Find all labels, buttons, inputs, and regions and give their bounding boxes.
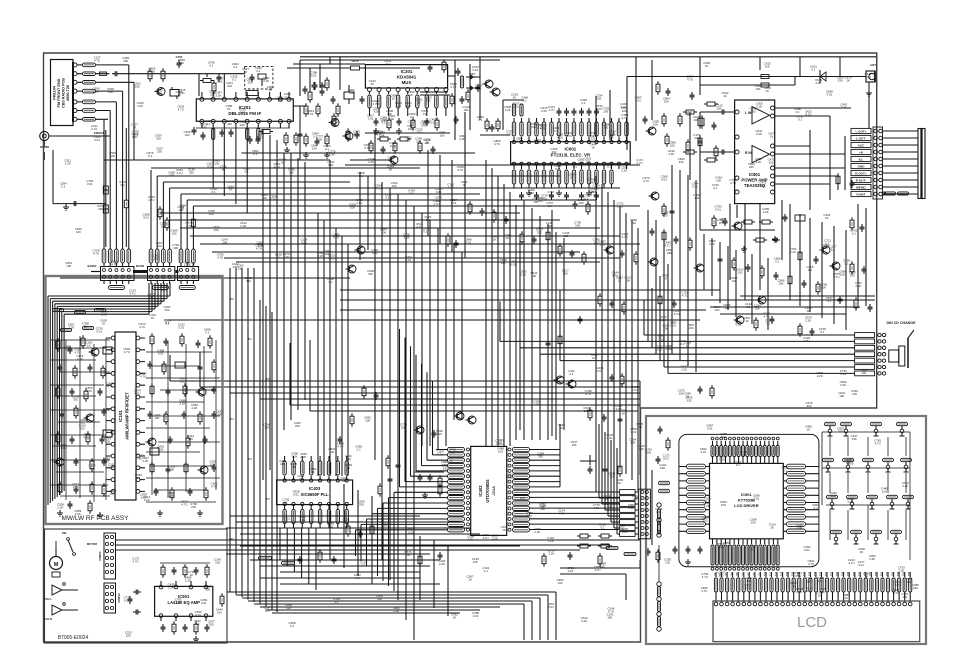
svg-text:S26: S26 xyxy=(853,571,856,576)
svg-text:330: 330 xyxy=(538,455,543,459)
svg-text:1K: 1K xyxy=(548,204,552,208)
svg-text:4.7U: 4.7U xyxy=(637,161,643,165)
svg-text:100: 100 xyxy=(732,279,737,283)
svg-text:100: 100 xyxy=(80,426,85,430)
svg-text:4.7U: 4.7U xyxy=(207,165,213,169)
svg-text:4.7U: 4.7U xyxy=(333,236,339,240)
svg-text:P5: P5 xyxy=(266,497,270,501)
svg-text:4.7U: 4.7U xyxy=(662,214,668,218)
svg-text:0.1: 0.1 xyxy=(61,185,65,189)
svg-text:100: 100 xyxy=(852,392,857,396)
svg-text:10K: 10K xyxy=(108,90,113,94)
svg-text:100: 100 xyxy=(191,505,196,509)
svg-text:S13: S13 xyxy=(781,571,784,576)
svg-text:1K: 1K xyxy=(102,321,106,325)
svg-text:0.01: 0.01 xyxy=(437,453,443,457)
svg-text:0.01: 0.01 xyxy=(156,91,162,95)
svg-text:1K: 1K xyxy=(347,466,351,470)
svg-text:330: 330 xyxy=(646,451,651,455)
svg-text:2.2K: 2.2K xyxy=(492,537,498,541)
svg-text:330: 330 xyxy=(286,606,291,610)
svg-text:10K: 10K xyxy=(589,181,594,185)
svg-text:2.2K: 2.2K xyxy=(816,81,822,85)
svg-text:2.2K: 2.2K xyxy=(329,153,335,157)
svg-text:2.2K: 2.2K xyxy=(390,144,396,148)
svg-text:330: 330 xyxy=(807,404,812,408)
svg-text:1K: 1K xyxy=(426,218,430,222)
svg-text:100: 100 xyxy=(317,138,322,142)
svg-text:4.7U: 4.7U xyxy=(86,389,92,393)
svg-text:S24: S24 xyxy=(842,571,845,576)
svg-text:2.2K: 2.2K xyxy=(628,506,634,510)
svg-text:2.2K: 2.2K xyxy=(617,205,623,209)
svg-text:4.7U: 4.7U xyxy=(283,255,289,259)
svg-text:330: 330 xyxy=(123,59,128,63)
svg-text:4.7U: 4.7U xyxy=(724,544,730,548)
svg-text:R210: R210 xyxy=(352,59,359,63)
svg-text:0.01: 0.01 xyxy=(858,563,864,567)
svg-text:0.1: 0.1 xyxy=(195,622,199,626)
svg-text:0.1: 0.1 xyxy=(633,497,637,501)
svg-text:0.1: 0.1 xyxy=(290,624,294,628)
svg-text:330: 330 xyxy=(180,380,185,384)
svg-text:100: 100 xyxy=(346,457,351,461)
svg-text:1K: 1K xyxy=(791,584,795,588)
svg-text:S25: S25 xyxy=(847,571,850,576)
svg-text:100: 100 xyxy=(149,296,154,300)
svg-text:1K: 1K xyxy=(502,528,506,532)
svg-text:330: 330 xyxy=(295,424,300,428)
svg-text:S18: S18 xyxy=(808,571,811,576)
svg-text:100: 100 xyxy=(703,519,708,523)
svg-text:4.7U: 4.7U xyxy=(687,78,693,82)
svg-text:L OUT-: L OUT- xyxy=(856,136,866,140)
svg-text:2.2K: 2.2K xyxy=(318,254,324,258)
svg-text:0.01: 0.01 xyxy=(300,518,306,522)
svg-text:330: 330 xyxy=(210,92,215,96)
svg-text:0.01: 0.01 xyxy=(804,548,810,552)
svg-text:10K: 10K xyxy=(563,272,568,276)
svg-text:0.1: 0.1 xyxy=(775,259,779,263)
svg-text:0.01: 0.01 xyxy=(848,500,854,504)
svg-text:0.1: 0.1 xyxy=(233,65,237,69)
svg-text:0.01: 0.01 xyxy=(357,201,363,205)
svg-text:AM/LW/AMP RF/IF/DET: AM/LW/AMP RF/IF/DET xyxy=(125,392,130,440)
svg-text:330: 330 xyxy=(537,231,542,235)
svg-text:0.1: 0.1 xyxy=(573,165,577,169)
svg-text:100: 100 xyxy=(76,230,81,234)
svg-text:1K: 1K xyxy=(745,319,749,323)
svg-text:0.01: 0.01 xyxy=(865,75,871,79)
svg-text:0.1: 0.1 xyxy=(811,68,815,72)
svg-text:4.7U: 4.7U xyxy=(482,536,488,540)
svg-text:10K: 10K xyxy=(110,154,115,158)
svg-text:4.7U: 4.7U xyxy=(139,325,145,329)
svg-text:2.2K: 2.2K xyxy=(681,368,687,372)
svg-text:10K: 10K xyxy=(721,435,726,439)
svg-text:330: 330 xyxy=(179,61,184,65)
svg-text:XIC6650F PLL: XIC6650F PLL xyxy=(301,492,329,497)
svg-text:1K: 1K xyxy=(151,316,155,320)
svg-text:4.7U: 4.7U xyxy=(353,133,359,137)
svg-text:0.01: 0.01 xyxy=(658,337,664,341)
svg-text:1K: 1K xyxy=(506,236,510,240)
svg-text:330: 330 xyxy=(73,398,78,402)
svg-text:0.1: 0.1 xyxy=(410,115,414,119)
svg-text:100: 100 xyxy=(157,244,162,248)
svg-text:10K: 10K xyxy=(670,143,675,147)
svg-text:2.2K: 2.2K xyxy=(805,319,811,323)
svg-text:4.7U: 4.7U xyxy=(178,108,184,112)
svg-text:0.01: 0.01 xyxy=(301,241,307,245)
svg-text:2.2K: 2.2K xyxy=(168,586,174,590)
svg-text:ACC: ACC xyxy=(858,143,865,147)
svg-text:0.01: 0.01 xyxy=(293,493,299,497)
svg-text:CN502: CN502 xyxy=(117,593,121,603)
svg-text:0.01: 0.01 xyxy=(473,68,479,72)
svg-text:0.01: 0.01 xyxy=(178,325,184,329)
svg-text:330: 330 xyxy=(749,165,754,169)
svg-text:4.7U: 4.7U xyxy=(875,442,881,446)
svg-text:100: 100 xyxy=(156,137,161,141)
svg-text:10K: 10K xyxy=(389,117,394,121)
svg-text:330: 330 xyxy=(227,122,232,126)
svg-text:1K: 1K xyxy=(87,343,91,347)
svg-text:4.7U: 4.7U xyxy=(274,165,280,169)
svg-text:0.1: 0.1 xyxy=(211,190,215,194)
svg-text:S31: S31 xyxy=(881,571,884,576)
svg-text:4.7U: 4.7U xyxy=(612,273,618,277)
svg-text:0.01: 0.01 xyxy=(827,93,833,97)
svg-text:100: 100 xyxy=(498,449,503,453)
svg-text:1K: 1K xyxy=(409,93,413,97)
svg-text:0.01: 0.01 xyxy=(436,190,442,194)
svg-text:1K: 1K xyxy=(723,94,727,98)
svg-text:330: 330 xyxy=(838,78,843,82)
svg-text:10K: 10K xyxy=(840,272,845,276)
svg-text:2.2K: 2.2K xyxy=(73,485,79,489)
svg-text:0.1: 0.1 xyxy=(357,448,361,452)
svg-text:0.01: 0.01 xyxy=(328,163,334,167)
svg-text:1K: 1K xyxy=(860,550,864,554)
svg-text:LA4160 EQ AMP: LA4160 EQ AMP xyxy=(167,600,200,605)
svg-text:100: 100 xyxy=(665,561,670,565)
svg-text:100: 100 xyxy=(172,231,177,235)
svg-text:2.2K: 2.2K xyxy=(57,505,63,509)
svg-text:100: 100 xyxy=(831,494,836,498)
svg-text:100: 100 xyxy=(721,503,726,507)
svg-text:10K: 10K xyxy=(240,111,245,115)
svg-text:2.2K: 2.2K xyxy=(93,89,99,93)
svg-text:10K: 10K xyxy=(660,466,665,470)
svg-text:10K: 10K xyxy=(520,496,525,500)
svg-text:330: 330 xyxy=(233,265,238,269)
svg-text:100: 100 xyxy=(341,479,346,483)
svg-text:1K: 1K xyxy=(392,96,396,100)
svg-text:4.7U: 4.7U xyxy=(622,235,628,239)
svg-text:100: 100 xyxy=(291,465,296,469)
svg-text:0.01: 0.01 xyxy=(735,323,741,327)
svg-text:4.7U: 4.7U xyxy=(93,252,99,256)
svg-text:10K: 10K xyxy=(278,99,283,103)
svg-text:0.01: 0.01 xyxy=(406,258,412,262)
svg-text:100: 100 xyxy=(227,84,232,88)
svg-text:4.7U: 4.7U xyxy=(763,314,769,318)
svg-text:100: 100 xyxy=(906,580,911,584)
svg-text:R OUT+: R OUT+ xyxy=(855,171,867,175)
svg-text:100: 100 xyxy=(849,461,854,465)
svg-text:4.7U: 4.7U xyxy=(270,198,276,202)
svg-text:1K: 1K xyxy=(276,256,280,260)
svg-text:S11: S11 xyxy=(770,571,773,576)
svg-text:2.2K: 2.2K xyxy=(240,224,246,228)
svg-text:10K: 10K xyxy=(534,402,539,406)
svg-text:0.01: 0.01 xyxy=(372,251,378,255)
svg-text:2.2K: 2.2K xyxy=(548,539,554,543)
svg-text:0.1: 0.1 xyxy=(328,280,332,284)
svg-text:2.2K: 2.2K xyxy=(666,347,672,351)
svg-text:2.2K: 2.2K xyxy=(439,562,445,566)
svg-text:4.7U: 4.7U xyxy=(893,591,899,595)
svg-text:10K: 10K xyxy=(289,171,294,175)
svg-text:4.7U: 4.7U xyxy=(60,446,66,450)
svg-text:S21: S21 xyxy=(825,571,828,576)
svg-text:10K: 10K xyxy=(694,118,699,122)
svg-text:4.7U: 4.7U xyxy=(133,559,139,563)
svg-text:10K: 10K xyxy=(607,616,612,620)
svg-text:0.1: 0.1 xyxy=(285,95,289,99)
svg-text:2.2K: 2.2K xyxy=(300,455,306,459)
svg-text:4.7U: 4.7U xyxy=(83,436,89,440)
svg-text:2.2K: 2.2K xyxy=(142,459,148,463)
svg-text:4.7U: 4.7U xyxy=(332,120,338,124)
svg-text:1K: 1K xyxy=(513,96,517,100)
svg-text:S14: S14 xyxy=(786,571,789,576)
svg-text:2.2K: 2.2K xyxy=(840,383,846,387)
svg-text:PHJ L: PHJ L xyxy=(44,597,52,601)
svg-text:DBL1015 FM IF: DBL1015 FM IF xyxy=(228,111,261,116)
svg-text:1K: 1K xyxy=(821,590,825,594)
svg-text:4.7U: 4.7U xyxy=(805,113,811,117)
svg-text:0.1: 0.1 xyxy=(423,230,427,234)
svg-text:0.1: 0.1 xyxy=(523,99,527,103)
svg-text:330: 330 xyxy=(572,443,577,447)
svg-text:4.7U: 4.7U xyxy=(337,444,343,448)
svg-text:10K: 10K xyxy=(161,224,166,228)
svg-text:1K: 1K xyxy=(605,497,609,501)
svg-text:2.2K: 2.2K xyxy=(660,318,666,322)
svg-text:0.01: 0.01 xyxy=(548,605,554,609)
svg-text:4.7U: 4.7U xyxy=(682,293,688,297)
svg-text:S12: S12 xyxy=(775,571,778,576)
svg-text:0.01: 0.01 xyxy=(635,98,641,102)
svg-text:0.1: 0.1 xyxy=(814,506,818,510)
svg-text:1K: 1K xyxy=(845,596,849,600)
svg-text:2.2K: 2.2K xyxy=(216,94,222,98)
svg-text:1K: 1K xyxy=(453,615,457,619)
svg-text:10K: 10K xyxy=(664,99,669,103)
svg-text:0.1: 0.1 xyxy=(808,268,812,272)
svg-text:330: 330 xyxy=(377,597,382,601)
svg-text:S10: S10 xyxy=(764,571,767,576)
svg-text:10K: 10K xyxy=(625,278,630,282)
svg-text:4.7U: 4.7U xyxy=(176,171,182,175)
svg-text:4.7U: 4.7U xyxy=(149,69,155,73)
svg-text:0.01: 0.01 xyxy=(631,430,637,434)
svg-text:S22: S22 xyxy=(831,571,834,576)
svg-text:2.2K: 2.2K xyxy=(756,160,762,164)
svg-text:2.2K: 2.2K xyxy=(616,407,622,411)
svg-text:4.7U: 4.7U xyxy=(140,374,146,378)
svg-text:330: 330 xyxy=(552,150,557,154)
svg-text:10K: 10K xyxy=(408,127,413,131)
svg-text:0.01: 0.01 xyxy=(621,105,627,109)
svg-text:100: 100 xyxy=(205,587,210,591)
svg-text:0.1: 0.1 xyxy=(680,342,684,346)
svg-text:CN501: CN501 xyxy=(98,551,102,561)
svg-text:0.1: 0.1 xyxy=(382,121,386,125)
svg-text:MEMO: MEMO xyxy=(856,185,866,189)
svg-text:4.7U: 4.7U xyxy=(465,240,471,244)
svg-text:10K: 10K xyxy=(741,453,746,457)
svg-text:10K: 10K xyxy=(821,286,826,290)
svg-text:0.1: 0.1 xyxy=(253,152,257,156)
svg-text:330: 330 xyxy=(852,437,857,441)
svg-text:10K: 10K xyxy=(501,261,506,265)
svg-text:4.7U: 4.7U xyxy=(806,589,812,593)
svg-text:4.7U: 4.7U xyxy=(643,179,649,183)
svg-text:100: 100 xyxy=(823,246,828,250)
svg-text:0.01: 0.01 xyxy=(124,598,130,602)
svg-text:330: 330 xyxy=(374,109,379,113)
svg-text:330: 330 xyxy=(164,308,169,312)
svg-text:2.2K: 2.2K xyxy=(68,326,74,330)
svg-text:0.01: 0.01 xyxy=(597,369,603,373)
svg-text:1K: 1K xyxy=(663,277,667,281)
svg-text:330: 330 xyxy=(258,244,263,248)
svg-text:S30: S30 xyxy=(875,571,878,576)
svg-text:2.2K: 2.2K xyxy=(668,152,674,156)
svg-text:2.2K: 2.2K xyxy=(75,512,81,516)
svg-text:4.7U: 4.7U xyxy=(328,256,334,260)
svg-text:0.01: 0.01 xyxy=(661,177,667,181)
svg-text:4.7U: 4.7U xyxy=(702,575,708,579)
svg-text:1K: 1K xyxy=(770,134,774,138)
svg-text:0.01: 0.01 xyxy=(409,192,415,196)
svg-text:L OUT+: L OUT+ xyxy=(855,129,866,133)
svg-text:0.1: 0.1 xyxy=(148,154,152,158)
svg-text:MAIN2: MAIN2 xyxy=(136,264,145,268)
svg-text:1K: 1K xyxy=(687,113,691,117)
svg-text:1K: 1K xyxy=(181,207,185,211)
svg-text:0.1: 0.1 xyxy=(256,69,260,73)
svg-text:0.1: 0.1 xyxy=(569,372,573,376)
svg-text:2.2K: 2.2K xyxy=(101,312,107,316)
svg-text:330: 330 xyxy=(547,224,552,228)
svg-text:0.1: 0.1 xyxy=(581,101,585,105)
svg-text:10K: 10K xyxy=(663,327,668,331)
svg-text:1K: 1K xyxy=(719,221,723,225)
svg-text:1K: 1K xyxy=(299,477,303,481)
svg-text:2.2K: 2.2K xyxy=(869,557,875,561)
svg-text:0.1: 0.1 xyxy=(245,170,249,174)
svg-text:10K: 10K xyxy=(381,230,386,234)
svg-text:100: 100 xyxy=(596,107,601,111)
svg-text:10K: 10K xyxy=(463,108,468,112)
svg-text:2.2K: 2.2K xyxy=(459,137,465,141)
svg-text:4.7U: 4.7U xyxy=(745,586,751,590)
svg-text:2.2K: 2.2K xyxy=(192,406,198,410)
svg-text:4.7U: 4.7U xyxy=(631,388,637,392)
svg-text:100: 100 xyxy=(557,581,562,585)
svg-text:2.2K: 2.2K xyxy=(621,168,627,172)
svg-text:1K: 1K xyxy=(865,574,869,578)
svg-text:2.2K: 2.2K xyxy=(841,106,847,110)
svg-text:100: 100 xyxy=(214,228,219,232)
svg-text:IC402: IC402 xyxy=(478,485,483,497)
svg-text:IC301: IC301 xyxy=(401,69,413,74)
svg-text:LCD: LCD xyxy=(797,614,827,631)
svg-text:1K: 1K xyxy=(370,82,374,86)
svg-text:0.01: 0.01 xyxy=(555,167,561,171)
svg-text:2.2K: 2.2K xyxy=(109,466,115,470)
svg-text:10K: 10K xyxy=(716,107,721,111)
svg-text:100: 100 xyxy=(406,104,411,108)
svg-text:1K: 1K xyxy=(268,88,272,92)
svg-text:0.01: 0.01 xyxy=(132,135,138,139)
svg-text:4.7U: 4.7U xyxy=(817,579,823,583)
svg-text:330: 330 xyxy=(694,136,699,140)
svg-text:4.7U: 4.7U xyxy=(674,312,680,316)
svg-text:0.1: 0.1 xyxy=(798,117,802,121)
svg-text:P3: P3 xyxy=(230,417,234,421)
svg-text:GND: GND xyxy=(858,164,866,168)
svg-text:2.2K: 2.2K xyxy=(704,504,710,508)
svg-text:100: 100 xyxy=(215,561,220,565)
svg-text:1K: 1K xyxy=(621,411,625,415)
svg-text:100: 100 xyxy=(329,450,334,454)
svg-text:0.1: 0.1 xyxy=(713,186,717,190)
svg-text:0.01: 0.01 xyxy=(430,121,436,125)
svg-text:0.1: 0.1 xyxy=(136,476,140,480)
svg-text:10K: 10K xyxy=(778,281,783,285)
svg-text:0.01: 0.01 xyxy=(591,138,597,142)
svg-text:100: 100 xyxy=(688,326,693,330)
svg-text:100: 100 xyxy=(714,308,719,312)
svg-text:2.2K: 2.2K xyxy=(817,374,823,378)
svg-text:0.01: 0.01 xyxy=(670,323,676,327)
svg-text:4.7U: 4.7U xyxy=(506,133,512,137)
svg-text:330: 330 xyxy=(718,545,723,549)
svg-text:0.01: 0.01 xyxy=(568,569,574,573)
svg-text:330: 330 xyxy=(173,246,178,250)
svg-text:4.7U: 4.7U xyxy=(701,589,707,593)
svg-text:0.01: 0.01 xyxy=(457,168,463,172)
svg-text:100: 100 xyxy=(90,466,95,470)
svg-text:330: 330 xyxy=(750,110,755,114)
svg-text:KDA5041: KDA5041 xyxy=(397,75,417,80)
svg-text:4.7U: 4.7U xyxy=(111,263,117,267)
svg-text:10K: 10K xyxy=(653,122,658,126)
svg-text:10K: 10K xyxy=(169,468,174,472)
svg-text:0.1: 0.1 xyxy=(121,183,125,187)
svg-text:0.01: 0.01 xyxy=(158,351,164,355)
svg-text:0.1: 0.1 xyxy=(325,147,329,151)
svg-text:100: 100 xyxy=(538,199,543,203)
svg-text:4.7U: 4.7U xyxy=(388,158,394,162)
svg-text:2.2K: 2.2K xyxy=(395,104,401,108)
svg-text:100: 100 xyxy=(657,348,662,352)
